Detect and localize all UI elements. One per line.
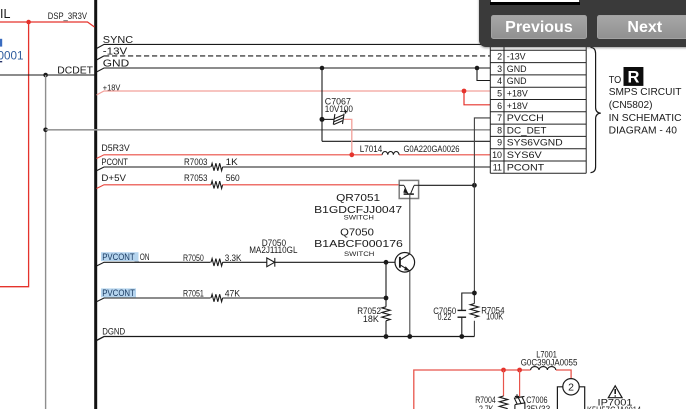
wire DC_DET to table pin 8 (46, 129, 491, 131)
wire GND step to table pin 4 (477, 68, 490, 81)
svg-text:R7051: R7051 (183, 289, 204, 299)
svg-text:0.22: 0.22 (438, 312, 452, 322)
svg-text:GND: GND (507, 64, 527, 74)
button Next (597, 15, 686, 39)
node PVCONT_ON highlight (101, 252, 139, 261)
svg-text:PCONT: PCONT (101, 157, 128, 167)
resistor R7052 (382, 307, 390, 321)
wire DSP_3R3V (red) (0, 22, 95, 27)
wire DGND (97, 337, 475, 341)
svg-text:PCONT: PCONT (507, 162, 545, 172)
junction DC_DET (43, 128, 48, 133)
svg-text:IN SCHEMATIC: IN SCHEMATIC (609, 113, 682, 124)
junction DGND / R7052 (384, 334, 389, 339)
svg-text:D+5V: D+5V (101, 173, 126, 183)
wire Q7050 emitter to DGND (409, 271, 411, 337)
wire PCONT left (97, 167, 211, 171)
junction DGND / Q7050 emitter (407, 334, 412, 339)
wire GND to table pin 3 (97, 68, 491, 72)
node PVCONT highlight (101, 288, 136, 297)
wire D5R3V / SYS6V to table pin 10 (97, 155, 491, 159)
svg-text:DGND: DGND (102, 327, 125, 337)
svg-text:2: 2 (497, 52, 502, 62)
viewer white strip (491, 0, 579, 2)
connector CN5802 table (490, 42, 586, 173)
svg-text:10: 10 (492, 150, 502, 160)
capacitor C7006 (electrolytic, cut at bottom) (514, 394, 526, 409)
wire R7004 lead (503, 370, 505, 396)
svg-text:DSP_3R3V: DSP_3R3V (48, 11, 88, 21)
junction red rail / C7006 (517, 368, 522, 373)
resistor R7051 (211, 294, 223, 301)
symbol R block (624, 67, 644, 86)
svg-text:DC_DET: DC_DET (507, 125, 547, 135)
svg-text:SWITCH: SWITCH (344, 251, 374, 258)
wire PCONT right to table pin 11 (223, 166, 491, 168)
connector box (cut at bottom) (557, 387, 584, 409)
svg-text:G0A220GA0026: G0A220GA0026 (404, 144, 460, 154)
svg-text:11: 11 (493, 162, 502, 172)
svg-text:3: 3 (497, 64, 502, 74)
svg-text:GND: GND (507, 76, 527, 86)
wire SYNC (97, 44, 491, 48)
capacitor C7050 (458, 293, 475, 337)
wire PVCONT_ON left (97, 262, 211, 266)
svg-text:5: 5 (497, 89, 502, 99)
diode D7050 (267, 258, 275, 267)
node fragment blue link stem (0, 39, 2, 47)
inductor L7001 (531, 367, 556, 370)
svg-text:18K: 18K (363, 314, 379, 324)
svg-text:G0C390JA0055: G0C390JA0055 (521, 357, 578, 367)
svg-text:B1ABCF000176: B1ABCF000176 (314, 239, 403, 250)
junction SYS6V / C7067 (349, 152, 354, 157)
svg-text:PVCONT_: PVCONT_ (102, 252, 139, 262)
wire GND branch vertical to C7067 and SYS6VGND (321, 68, 323, 141)
connector CN5802 pin numbers and nets (492, 52, 562, 173)
wire PVCONT left (97, 298, 211, 302)
svg-text:2.7K: 2.7K (479, 404, 494, 409)
wire DCDET (0, 74, 95, 76)
svg-text:SYS6VGND: SYS6VGND (507, 138, 563, 148)
svg-text:0001: 0001 (0, 49, 24, 63)
wire SYS6VGND to table pin 9 (322, 140, 490, 142)
wire base pulldown vertical (385, 262, 387, 336)
button Previous (491, 15, 587, 39)
svg-text:D5R3V: D5R3V (101, 143, 130, 153)
svg-text:3.3K: 3.3K (225, 253, 242, 263)
svg-text:2: 2 (568, 382, 574, 394)
viewer black bar (490, 2, 581, 5)
svg-text:SWITCH: SWITCH (344, 215, 374, 222)
wire +18V step to table pin 6 (464, 91, 490, 105)
svg-text:ON: ON (140, 252, 150, 262)
resistor R7004 (cut at bottom) (499, 396, 507, 409)
wire R7051 to pulldown rail (223, 297, 387, 299)
svg-text:PVCONT: PVCONT (102, 288, 135, 298)
transistor QR7051 (digital, boxed) (399, 180, 418, 198)
svg-text:+18V: +18V (507, 89, 528, 99)
svg-text:100K: 100K (486, 312, 503, 322)
warning triangle IP7001 (608, 386, 622, 398)
svg-text:8: 8 (497, 125, 502, 135)
svg-text:4: 4 (497, 76, 502, 86)
junction PVCONT / pulldown rail (384, 296, 389, 301)
wire D+5V right to QR7051 (223, 184, 400, 187)
resistor R7054 (470, 304, 478, 318)
wire gray vertical DCDET to DC_DET (45, 75, 47, 409)
junction on DSP_3R3V (26, 20, 31, 25)
wire C7006 lead (519, 370, 521, 397)
junction +18V (462, 89, 467, 94)
svg-text:+18V: +18V (507, 101, 528, 111)
junction C7067 left lead (320, 117, 325, 122)
svg-text:35V33: 35V33 (526, 404, 550, 409)
wire Q7050 base lead (386, 261, 395, 263)
svg-text:IL: IL (0, 7, 10, 21)
svg-text:10V100: 10V100 (325, 104, 353, 114)
wire D7050 to Q7050 base (275, 261, 386, 263)
wire +18V to table pin 5 (97, 91, 491, 95)
wire QR7051 base down to Q7050 collector (409, 194, 411, 253)
svg-text:47K: 47K (225, 289, 241, 299)
svg-text:QR7051: QR7051 (336, 193, 380, 204)
junction DGND / C7050 (459, 334, 464, 339)
inductor L7014 (382, 152, 399, 155)
svg-text:1K: 1K (226, 157, 238, 167)
wire C7067 right lead (red) down to SYS6V (344, 119, 352, 154)
svg-text:MA2J1110GL: MA2J1110GL (249, 245, 297, 255)
svg-text:6: 6 (497, 101, 502, 111)
svg-text:R7050: R7050 (183, 253, 204, 263)
svg-text:SYS6V: SYS6V (507, 150, 542, 160)
resistor R7050 (211, 259, 223, 266)
junction Q7050 base / R7052 (384, 260, 389, 265)
svg-text:9: 9 (497, 138, 502, 148)
capacitor C7067 (electrolytic) (322, 110, 348, 125)
wire -13V (dashed) to table pin 2 (97, 56, 105, 60)
junction GND / pin4 branch (475, 66, 480, 71)
junction red rail / R7004 (501, 368, 506, 373)
resistor R7003 (211, 163, 223, 170)
wire QR7051 output to PVCCH rail (419, 184, 475, 186)
wire red vertical from DSP_3R3V junction (0, 22, 29, 287)
svg-text:(CN5802): (CN5802) (609, 100, 653, 111)
junction PVCCH rail / C7050 (472, 291, 477, 296)
note TO R SMPS CIRCUIT (609, 75, 682, 136)
junction GND / C7067 branch (320, 66, 325, 71)
transistor Q7050 (NPN) (395, 252, 415, 272)
junction DCDET (43, 73, 48, 78)
wire R7050 to D7050 (223, 261, 267, 263)
overlay panel (479, 0, 686, 47)
junction QR7051 / PVCCH rail (472, 183, 477, 188)
svg-text:7: 7 (497, 113, 502, 123)
svg-text:TO: TO (609, 75, 622, 86)
svg-text:560: 560 (226, 173, 240, 183)
resistor R7053 (211, 181, 223, 188)
brace (591, 47, 601, 172)
bus (thick vertical line) (94, 0, 97, 409)
wire D+5V left (97, 185, 212, 189)
svg-text:PVCCH: PVCCH (507, 113, 544, 123)
svg-text:R7003: R7003 (184, 157, 208, 167)
svg-text:SMPS CIRCUIT: SMPS CIRCUIT (609, 87, 682, 98)
svg-text:L7014: L7014 (360, 144, 383, 154)
wire bottom red rail (414, 370, 571, 409)
svg-text:R7053: R7053 (184, 173, 208, 183)
svg-text:DIAGRAM - 40: DIAGRAM - 40 (609, 125, 678, 136)
wire PVCCH rail: table pin 7 down through R7054 to DGND (474, 118, 490, 337)
svg-text:Q7050: Q7050 (340, 227, 374, 238)
svg-text:K5U5ZGJA0014: K5U5ZGJA0014 (587, 405, 641, 409)
svg-text:-13V: -13V (507, 52, 526, 62)
svg-text:R: R (627, 69, 639, 87)
connector 2 circle (563, 379, 579, 395)
